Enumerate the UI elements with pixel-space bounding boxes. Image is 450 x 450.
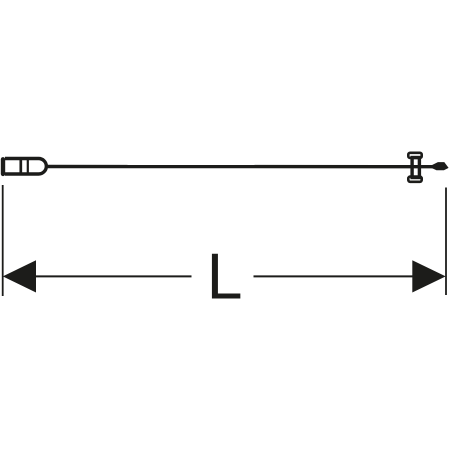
left fitting divider 2	[27, 159, 29, 175]
left arrowhead	[3, 260, 36, 292]
left extension line	[2, 185, 4, 296]
dimension line left segment	[6, 275, 192, 277]
blade tip	[432, 162, 449, 170]
left end fitting outline	[5, 159, 46, 175]
left fitting divider 1	[19, 159, 22, 175]
svg-text:L: L	[207, 240, 243, 312]
right spool fitting: top cap	[408, 153, 421, 158]
left end cap bar	[1, 159, 5, 174]
right spool fitting: bottom cap	[408, 177, 421, 182]
right arrowhead	[412, 260, 445, 292]
right spool fitting: column	[412, 158, 419, 178]
dimension line right segment	[254, 275, 444, 277]
right extension line	[445, 188, 447, 296]
cable wire	[45, 165, 434, 169]
